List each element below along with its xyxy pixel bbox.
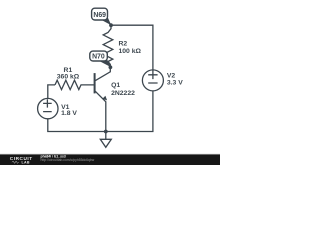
svg-text:http://circuitlab.com/c/pyh55d: http://circuitlab.com/c/pyh55dc6qbw — [41, 158, 95, 162]
svg-text:LAB: LAB — [22, 160, 30, 164]
transistor Q1 base bar — [94, 73, 96, 93]
wire J1 to V2 top — [111, 25, 153, 70]
svg-text:Q1: Q1 — [111, 82, 120, 89]
svg-text:2N2222: 2N2222 — [111, 90, 135, 97]
node N70 — [90, 51, 108, 61]
voltage source V1 — [38, 98, 58, 118]
ground — [100, 132, 111, 148]
node N69 — [92, 8, 108, 20]
transistor Q1 emitter — [95, 91, 106, 131]
svg-text:R2: R2 — [119, 41, 128, 48]
svg-text:N70: N70 — [92, 54, 105, 61]
resistor R1 — [55, 80, 95, 89]
svg-text:360 kΩ: 360 kΩ — [57, 74, 80, 81]
resistor R2 — [103, 25, 113, 61]
voltage source V2 — [142, 70, 163, 91]
node junction ground — [104, 130, 108, 134]
wire V2 bottom to rail to V1 bottom — [48, 91, 153, 132]
wire R2 bottom to collector — [95, 62, 110, 81]
svg-text:N69: N69 — [93, 12, 106, 19]
node junction J1 — [109, 23, 113, 27]
svg-text:3.3 V: 3.3 V — [167, 80, 183, 87]
svg-text:100 kΩ: 100 kΩ — [119, 48, 142, 55]
wire V1 top to R1 — [48, 85, 55, 99]
footer bar — [0, 154, 220, 165]
node junction N70 tap — [109, 65, 113, 69]
node N69 tail — [99, 16, 111, 25]
emitter arrow — [102, 96, 107, 101]
svg-text:1.8 V: 1.8 V — [61, 110, 77, 117]
node N70 tail — [99, 58, 112, 67]
